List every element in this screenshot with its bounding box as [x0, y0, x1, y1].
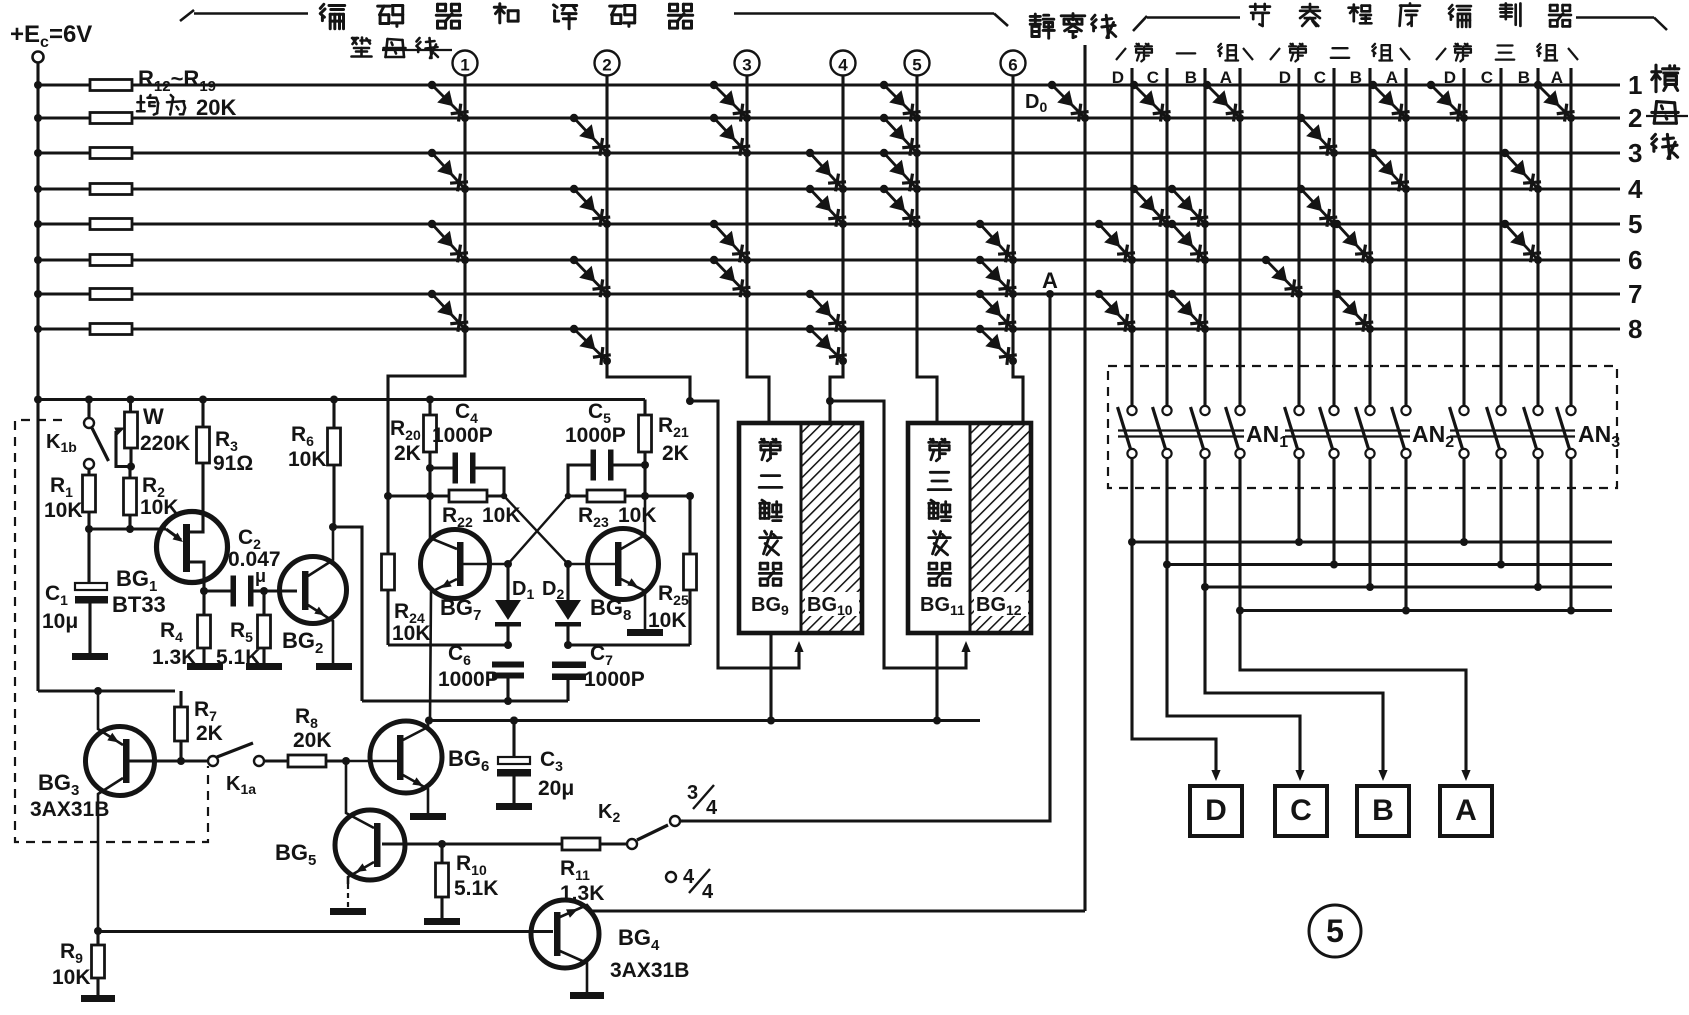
diode group2 column C row 4: [1301, 189, 1334, 224]
wire program column D3 vertical (rows to switch): [1462, 68, 1465, 406]
resistor R17 20K: [90, 255, 132, 266]
wire group2 column D stub to net D: [1297, 458, 1300, 543]
svg-text:+Ec=6V: +Ec=6V: [10, 21, 92, 51]
dashed enclosure switch K1 / BG3: [15, 420, 208, 842]
wire program column B3 vertical (rows to switch): [1536, 68, 1539, 406]
svg-text:10K: 10K: [618, 504, 657, 527]
wire column 2 output to BG9 trigger input: [690, 401, 799, 668]
wire horizontal bus row 2: [38, 116, 1620, 119]
wire node to C1: [87, 529, 90, 583]
diode group1 column A row 1: [1207, 85, 1240, 118]
diode group3 column B row 3: [1505, 153, 1538, 189]
svg-text:5: 5: [1628, 209, 1642, 239]
svg-text:3AX31B: 3AX31B: [610, 959, 689, 982]
wire program column D1 vertical (rows to switch): [1130, 68, 1133, 406]
svg-text:91Ω: 91Ω: [213, 452, 253, 475]
wire flip-flop left side (column 1 output): [386, 496, 389, 554]
diode matrix column 6 row 6: [980, 260, 1013, 294]
svg-text:220K: 220K: [140, 432, 190, 455]
wire vertical bus column 4: [830, 76, 843, 424]
svg-text:D: D: [1279, 68, 1291, 87]
svg-text:C: C: [1290, 794, 1312, 827]
wire cross-coupling R23 to BG7 base: [508, 496, 568, 564]
resistor R7 2K: [179, 691, 182, 707]
resistor R8 20K: [264, 759, 288, 762]
label group 3 第三组: [1436, 48, 1446, 60]
potentiometer W 220K: [127, 396, 135, 404]
wire vertical bus column 3: [747, 76, 769, 424]
svg-text:C: C: [1481, 68, 1493, 87]
diode group3 column A row 1: [1538, 85, 1571, 118]
wire flip-flop bottom right edge: [568, 643, 690, 646]
wire BG11 block bottom to rail: [935, 633, 938, 721]
switch contact AN2 pole D: [1294, 406, 1303, 415]
ground below BG8 emitter: [627, 629, 663, 636]
wire group3 column D stub to net D: [1462, 458, 1465, 543]
diode matrix column 4 row 7: [810, 294, 843, 329]
wire program column B2 vertical (rows to switch): [1368, 68, 1371, 406]
wire program column C1 vertical (rows to switch): [1165, 68, 1168, 406]
wire group1 column B to output box: [1205, 458, 1383, 776]
svg-text:μ: μ: [255, 566, 266, 586]
ground below C1: [72, 653, 108, 660]
diode matrix column 3 row 5: [714, 224, 747, 260]
svg-text:8: 8: [1628, 314, 1642, 344]
diode group2 column A row 1: [1373, 85, 1406, 118]
wire 静零线 quiet line vertical: [1083, 45, 1086, 911]
resistor R9 10K: [96, 931, 99, 945]
wire vertical bus column 5: [917, 76, 937, 424]
diode matrix column 2 row 4: [574, 189, 607, 224]
label group 2 第二组: [1270, 48, 1280, 60]
svg-text:5.1K: 5.1K: [216, 646, 260, 669]
switch contact AN3 pole B: [1533, 406, 1542, 415]
diode group3 column B row 5: [1505, 224, 1538, 260]
svg-text:A: A: [1455, 794, 1477, 827]
wire node X1 line: [388, 494, 449, 497]
wire BG2 collector to trigger line: [333, 527, 362, 701]
resistor R5 5.1K: [262, 591, 265, 615]
resistor R14 20K: [90, 148, 132, 159]
svg-text:4: 4: [706, 797, 718, 819]
label 静零线 (quiet line): [1030, 14, 1054, 38]
output box C: [1275, 786, 1327, 836]
svg-text:4: 4: [838, 56, 848, 75]
wire BG4 collector to quiet line: [592, 909, 1085, 912]
output box A: [1440, 786, 1492, 836]
svg-text:1: 1: [460, 56, 469, 75]
dashed enclosure for program switches: [1108, 366, 1617, 488]
resistor R10 5.1K: [440, 844, 443, 863]
capacitor C7 1000P: [552, 662, 586, 669]
diode group1 column D row 5: [1099, 224, 1132, 260]
svg-text:D: D: [1444, 68, 1456, 87]
svg-text:A: A: [1386, 68, 1398, 87]
wire +Ec rail y=399.5: [38, 398, 645, 401]
switch AN2 linkage bar: [1285, 429, 1410, 431]
block 第三触发器 third trigger BG11/BG12: [970, 423, 1031, 633]
transistor BG2: [280, 557, 347, 624]
svg-text:3: 3: [1628, 138, 1642, 168]
svg-text:B: B: [1350, 68, 1362, 87]
switch contact AN3 pole A: [1566, 406, 1575, 415]
diode matrix column 3 row 2: [714, 118, 747, 153]
svg-text:5: 5: [1326, 913, 1344, 949]
label 横母线 (horizontal bus, vertical text): [1652, 65, 1679, 91]
diode group3 column D row 1: [1431, 85, 1464, 118]
svg-text:10K: 10K: [648, 609, 687, 632]
wire net A horizontal: [1240, 609, 1612, 612]
svg-text:1.3K: 1.3K: [560, 882, 604, 905]
wire vertical bus column 6: [1013, 76, 1023, 424]
diode matrix column 4 row 4: [810, 189, 843, 224]
diode matrix column 1 row 7: [432, 294, 465, 329]
svg-text:2K: 2K: [196, 722, 223, 745]
ground below BG4: [570, 992, 604, 999]
switch contact AN3 pole C: [1496, 406, 1505, 415]
wire R1 bottom node: [87, 512, 90, 529]
diode matrix column 6 row 7: [980, 294, 1013, 329]
resistor R22 10K: [449, 490, 487, 502]
switch contact AN2 pole C: [1329, 406, 1338, 415]
wire BG3 base line: [129, 759, 208, 762]
wire flip-flop bottom left edge: [388, 643, 508, 646]
resistor R2 10K: [128, 467, 131, 479]
ground below BG2 emitter: [316, 663, 352, 670]
resistor R18 20K: [90, 289, 132, 300]
switch K1a: [208, 756, 218, 766]
wire horizontal bus row 3: [38, 151, 1620, 154]
diode matrix column 6 row 8: [980, 329, 1013, 361]
label circled column number 3: [735, 51, 760, 76]
svg-text:C: C: [1314, 68, 1326, 87]
wire vertical bus column 1: [388, 76, 465, 497]
ground below BG6: [410, 813, 446, 820]
svg-text:4: 4: [1628, 174, 1643, 204]
diode matrix column 1 row 3: [432, 153, 465, 189]
svg-text:1000P: 1000P: [584, 668, 645, 691]
resistor R11 1.3K: [442, 842, 562, 845]
svg-text:4: 4: [702, 881, 714, 903]
svg-text:2: 2: [602, 56, 611, 75]
wire group1 column D to output box: [1132, 458, 1216, 776]
ground below BG5: [330, 908, 366, 915]
wire program column D2 vertical (rows to switch): [1297, 68, 1300, 406]
capacitor C4 1000P: [430, 466, 455, 469]
switch K2 (3/4 - 4/4): [627, 839, 637, 849]
figure number circled 5: [1309, 905, 1361, 957]
diode group1 column B row 7: [1172, 294, 1205, 329]
svg-text:A: A: [1220, 68, 1232, 87]
resistor R1 10K: [83, 475, 96, 512]
svg-text:B: B: [1185, 68, 1197, 87]
diode D1: [504, 560, 512, 568]
diode matrix column 6 row 5: [980, 224, 1013, 260]
wire C2 to BG2 base: [264, 589, 297, 592]
svg-text:D: D: [1112, 68, 1124, 87]
switch contact AN2 pole A: [1401, 406, 1410, 415]
diode matrix column 4 row 3: [810, 153, 843, 189]
wire +Ec vertical feed: [36, 63, 39, 692]
wire R9 node: [94, 927, 102, 935]
ground below R9: [81, 995, 115, 1002]
resistor R4 1.3K: [202, 591, 205, 615]
diode D2: [564, 560, 572, 568]
resistor R19 20K: [90, 324, 132, 335]
svg-text:A: A: [1042, 268, 1058, 293]
wire program column A2 vertical (rows to switch): [1404, 68, 1407, 406]
wire BG5 base line: [382, 842, 442, 845]
switch K1b: [85, 396, 93, 404]
svg-text:20K: 20K: [293, 729, 332, 752]
ground below R4: [187, 663, 223, 670]
resistor R12 20K: [90, 80, 132, 91]
node A on row 7: [1046, 290, 1054, 298]
transistor BG6: [370, 721, 442, 793]
wire horizontal bus row 5: [38, 222, 1620, 225]
resistor R13 20K: [90, 113, 132, 124]
svg-text:2K: 2K: [394, 442, 421, 465]
label circled column number 1: [453, 51, 478, 76]
wire group1 column A to output box: [1240, 458, 1466, 776]
wire program column A3 vertical (rows to switch): [1569, 68, 1572, 406]
svg-text:20K: 20K: [196, 95, 236, 120]
wire group1 column C to output box: [1167, 458, 1300, 776]
wire net B horizontal: [1205, 585, 1612, 588]
resistor R24 10K: [382, 554, 395, 590]
resistor R25 10K: [688, 496, 691, 554]
wire net C horizontal: [1167, 563, 1612, 566]
diode matrix column 5 row 2: [884, 118, 917, 153]
transistor BG4 3AX31B: [531, 900, 599, 968]
svg-text:A: A: [1551, 68, 1563, 87]
diode matrix column 2 row 8: [574, 329, 607, 361]
label 竖母线 (vertical bus): [352, 38, 372, 57]
wire column 4 output to BG11 trigger input: [830, 401, 966, 668]
diode group2 column D row 6: [1266, 260, 1299, 294]
svg-text:10K: 10K: [44, 499, 83, 522]
wire program column A1 vertical (rows to switch): [1238, 68, 1241, 406]
capacitor C2 0.047u: [231, 576, 237, 607]
wire program column C2 vertical (rows to switch): [1332, 68, 1335, 406]
svg-text:7: 7: [1628, 279, 1642, 309]
resistor R6 10K: [330, 396, 338, 404]
switch AN1 linkage bar: [1118, 429, 1244, 431]
wire program column B1 vertical (rows to switch): [1203, 68, 1206, 406]
svg-text:B: B: [1518, 68, 1530, 87]
diode group1 column D row 7: [1099, 294, 1132, 329]
transistor BG8: [588, 529, 659, 600]
capacitor C6 1000P: [492, 662, 524, 668]
ground below R5: [246, 663, 282, 670]
diode group2 column C row 2: [1301, 118, 1334, 153]
label circled column number 6: [1001, 51, 1026, 76]
output box D: [1190, 786, 1242, 836]
diode group1 column B row 4: [1172, 189, 1205, 224]
diode group1 column C row 4: [1134, 189, 1167, 224]
wire group3 column B stub to net B: [1536, 458, 1539, 588]
diode matrix column 5 row 4: [884, 189, 917, 224]
svg-text:5: 5: [912, 56, 921, 75]
wire +Ec branch to R7 (y=691): [38, 689, 175, 692]
transistor BG5: [335, 810, 405, 880]
switch contact AN1 pole A: [1235, 406, 1244, 415]
svg-text:3: 3: [742, 56, 751, 75]
wire group3 column A stub to net A: [1569, 458, 1572, 611]
transistor BG7: [421, 530, 490, 599]
svg-text:D: D: [1205, 794, 1227, 827]
diode D0: [1052, 85, 1085, 118]
wire node X2 line: [568, 494, 587, 497]
wire group2 column C stub to net C: [1332, 458, 1335, 565]
svg-text:1.3K: 1.3K: [152, 646, 196, 669]
capacitor C1 10u (electrolytic): [75, 583, 107, 590]
wire vertical bus column 2: [607, 76, 690, 402]
wire program column C3 vertical (rows to switch): [1499, 68, 1502, 406]
svg-text:1: 1: [1628, 70, 1642, 100]
label group 1 第一组: [1116, 48, 1126, 60]
svg-text:20μ: 20μ: [538, 777, 574, 800]
wire BG1 emitter node: [89, 527, 166, 530]
wire BG3 emitter to BG4 base: [98, 930, 553, 933]
label title 编码器和译码器 bracket left: [180, 10, 194, 21]
block 第二触发器 second trigger BG9/BG10: [801, 423, 862, 633]
diode matrix column 1 row 5: [432, 224, 465, 260]
diode matrix column 2 row 2: [574, 118, 607, 153]
resistor R3 91ohm: [199, 396, 207, 404]
diode group1 column B row 5: [1172, 224, 1205, 260]
svg-text:2: 2: [1628, 103, 1642, 133]
svg-text:3: 3: [687, 782, 698, 804]
label title 节奏程序编制器: [1250, 4, 1270, 26]
wire horizontal bus row 1: [38, 83, 1620, 86]
svg-text:10K: 10K: [52, 966, 91, 989]
diode matrix column 3 row 1: [714, 85, 747, 118]
diode matrix column 1 row 1: [432, 85, 465, 118]
svg-text:C: C: [1147, 68, 1159, 87]
diode matrix column 3 row 6: [714, 260, 747, 294]
wire group2 column A stub to net A: [1404, 458, 1407, 611]
switch contact AN1 pole C: [1162, 406, 1171, 415]
diode matrix column 5 row 3: [884, 153, 917, 189]
svg-text:4: 4: [683, 866, 695, 888]
svg-text:2K: 2K: [662, 442, 689, 465]
diode matrix column 5 row 1: [884, 85, 917, 118]
ground below R10: [424, 918, 460, 925]
switch AN3 linkage bar: [1450, 429, 1575, 431]
resistor R21 2K: [643, 400, 646, 416]
resistor R20 2K: [426, 396, 434, 404]
capacitor C3 20u: [510, 717, 518, 725]
label title 编码器和译码器: [320, 4, 344, 28]
capacitor C5 1000P: [591, 450, 597, 481]
ground below C3: [496, 803, 532, 810]
svg-text:6: 6: [1628, 245, 1642, 275]
svg-text:10K: 10K: [392, 622, 431, 645]
resistor R16 20K: [90, 219, 132, 230]
wire BG1 base1 to C2 and R4: [204, 589, 233, 592]
wire node A line to K2 3/4 contact: [683, 294, 1050, 821]
output box B: [1357, 786, 1409, 836]
svg-text:10μ: 10μ: [42, 610, 78, 633]
svg-text:5.1K: 5.1K: [454, 877, 498, 900]
switch contact AN3 pole D: [1459, 406, 1468, 415]
diode group1 column C row 1: [1134, 85, 1167, 118]
switch contact AN2 pole B: [1365, 406, 1374, 415]
wire trigger line to C6/C7: [362, 699, 568, 702]
svg-text:6: 6: [1008, 56, 1017, 75]
transistor BG1 BT33 (unijunction): [157, 512, 228, 583]
label circled column number 4: [831, 51, 856, 76]
svg-text:BT33: BT33: [112, 592, 166, 617]
transistor BG3 3AX31B: [86, 727, 155, 796]
resistor R23 10K: [587, 490, 625, 502]
diode group2 column B row 7: [1337, 294, 1370, 329]
wire K2 3/4 contact to node A line: [681, 819, 683, 822]
diode matrix column 2 row 6: [574, 260, 607, 294]
switch contact AN1 pole B: [1200, 406, 1209, 415]
wire horizontal bus row 8: [38, 327, 1620, 330]
wire horizontal bus row 7: [38, 292, 1620, 295]
diode group2 column A row 3: [1373, 153, 1406, 189]
svg-text:W: W: [143, 404, 164, 429]
wire group3 column C stub to net C: [1499, 458, 1502, 565]
label circled column number 2: [595, 51, 620, 76]
svg-text:1000P: 1000P: [438, 668, 499, 691]
diode group2 column B row 5: [1337, 224, 1370, 260]
wire horizontal bus row 6: [38, 258, 1620, 261]
resistor R15 20K: [90, 184, 132, 195]
label circled column number 5: [905, 51, 930, 76]
wire BG9 block bottom to rail: [769, 633, 772, 721]
diode matrix column 4 row 8: [810, 329, 843, 361]
wire horizontal bus row 4: [38, 187, 1620, 190]
svg-text:1000P: 1000P: [565, 424, 626, 447]
wire cross-coupling R22 to BG8 base: [504, 496, 568, 564]
svg-text:B: B: [1372, 794, 1394, 827]
svg-text:3AX31B: 3AX31B: [30, 798, 109, 821]
wire common rail y=720.5: [429, 719, 980, 722]
wire group2 column B stub to net B: [1368, 458, 1371, 588]
svg-text:1000P: 1000P: [432, 424, 493, 447]
svg-text:10K: 10K: [288, 448, 327, 471]
label title 节奏程序编制器 bracket left: [1133, 16, 1147, 31]
label title bracket right hook: [1576, 16, 1654, 19]
switch contact AN1 pole D: [1127, 406, 1136, 415]
label title bracket right: [734, 12, 994, 15]
wire net D horizontal: [1132, 540, 1612, 543]
